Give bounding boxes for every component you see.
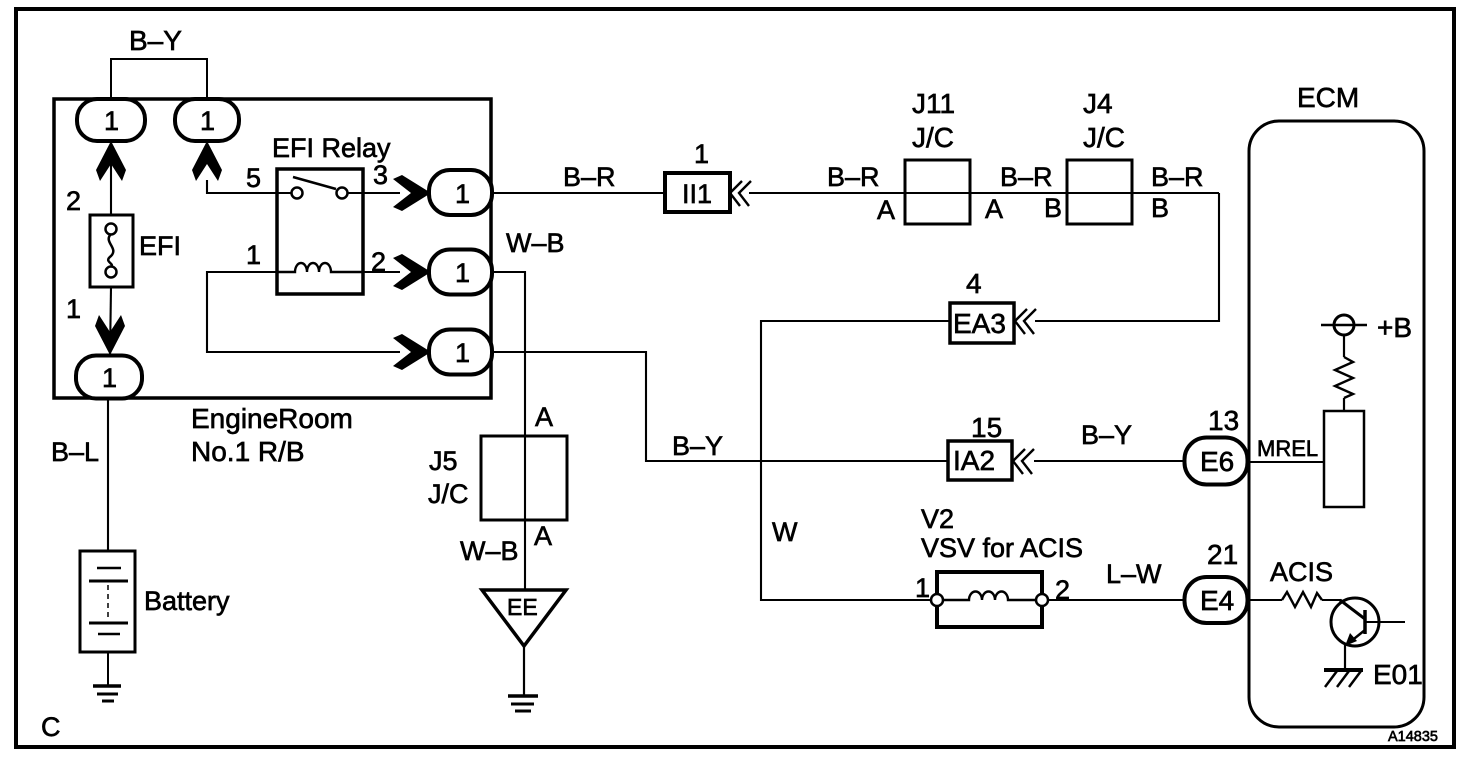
svg-text:E01: E01 bbox=[1373, 659, 1423, 690]
connector 1 (pin3 out) bbox=[429, 170, 492, 215]
svg-text:B–L: B–L bbox=[51, 437, 99, 467]
svg-text:1: 1 bbox=[915, 573, 930, 603]
connector IA2 pin 15 bbox=[948, 412, 1012, 480]
chevron marks at IA2 bbox=[1013, 449, 1034, 474]
connector E4 pin 21 ACIS bbox=[1185, 539, 1248, 623]
transistor Q (ACIS driver) bbox=[1331, 598, 1405, 670]
svg-text:No.1 R/B: No.1 R/B bbox=[191, 436, 305, 467]
arrow up into right connector bbox=[192, 141, 222, 181]
svg-text:J5: J5 bbox=[429, 446, 458, 476]
svg-text:B: B bbox=[1151, 193, 1169, 223]
ECM block bbox=[1249, 82, 1424, 727]
svg-text:1: 1 bbox=[104, 106, 119, 136]
svg-text:Battery: Battery bbox=[144, 586, 230, 616]
chevron marks at II1 bbox=[730, 181, 751, 206]
junction J11 J/C bbox=[905, 88, 970, 224]
svg-text:EFI: EFI bbox=[139, 231, 181, 261]
svg-text:ACIS: ACIS bbox=[1270, 557, 1333, 587]
connector E6 pin 13 MREL bbox=[1185, 405, 1248, 485]
arrow up into left connector bbox=[96, 141, 126, 181]
resistor (pull-up inside ECM) bbox=[1335, 335, 1353, 411]
svg-text:ECM: ECM bbox=[1297, 82, 1359, 113]
solenoid V2 VSV for ACIS bbox=[915, 504, 1083, 627]
svg-text:1: 1 bbox=[200, 106, 215, 136]
svg-text:B–Y: B–Y bbox=[129, 25, 182, 56]
svg-text:EngineRoom: EngineRoom bbox=[191, 403, 353, 434]
wire B-R J4 to EA3 bbox=[1035, 162, 1219, 321]
chevron marks at EA3 bbox=[1015, 309, 1036, 334]
wire B-L battery to relay block bbox=[51, 398, 108, 552]
relay block EngineRoom No.1 R/B bbox=[54, 99, 491, 467]
wire MREL E6 into ECM bbox=[1248, 436, 1324, 462]
svg-text:A: A bbox=[985, 194, 1003, 224]
wire fuse to top connector bbox=[110, 141, 112, 215]
svg-text:C: C bbox=[41, 712, 61, 742]
svg-text:B–Y: B–Y bbox=[1081, 420, 1132, 450]
svg-text:EA3: EA3 bbox=[953, 308, 1006, 339]
connector 1 (fuse top) bbox=[77, 99, 145, 141]
wire B-R pin3 connector to II1 bbox=[492, 162, 665, 193]
svg-text:5: 5 bbox=[246, 163, 261, 193]
wire B-Y third connector to IA2 bbox=[492, 352, 948, 461]
wire W EA3 to VSV bbox=[761, 321, 950, 600]
svg-text:1: 1 bbox=[455, 338, 470, 368]
svg-text:VSV for ACIS: VSV for ACIS bbox=[921, 533, 1083, 563]
connector 1 (B-Y out) bbox=[429, 330, 492, 375]
svg-text:J/C: J/C bbox=[428, 479, 469, 509]
svg-text:+B: +B bbox=[1377, 312, 1412, 343]
ground E01 bbox=[1324, 659, 1423, 690]
svg-text:IA2: IA2 bbox=[953, 445, 995, 476]
svg-text:4: 4 bbox=[966, 268, 982, 299]
svg-text:II1: II1 bbox=[682, 179, 712, 209]
svg-text:J4: J4 bbox=[1083, 88, 1113, 119]
svg-text:3: 3 bbox=[373, 160, 388, 190]
svg-text:E6: E6 bbox=[1200, 446, 1234, 477]
arrow right into third connector bbox=[393, 334, 431, 370]
svg-text:E4: E4 bbox=[1200, 585, 1234, 616]
connector EA3 pin 4 bbox=[950, 268, 1014, 343]
wire B-R J11 to J4 bbox=[1000, 162, 1053, 192]
connector 1 (pin2 out W-B) bbox=[429, 250, 492, 295]
connector II1 bbox=[665, 139, 730, 212]
svg-text:1: 1 bbox=[694, 139, 709, 169]
svg-text:A: A bbox=[877, 195, 895, 225]
wire B-R II1 to J11 bbox=[749, 162, 1219, 193]
svg-text:B–R: B–R bbox=[563, 162, 616, 192]
svg-text:J/C: J/C bbox=[1083, 122, 1125, 153]
wire battery to ground bbox=[107, 652, 109, 686]
svg-text:1: 1 bbox=[66, 294, 81, 324]
svg-text:J/C: J/C bbox=[912, 122, 954, 153]
connector 1 (battery feed) bbox=[76, 356, 142, 399]
wire W-B pin2 to J5 to EE bbox=[492, 228, 565, 590]
svg-text:B–R: B–R bbox=[1000, 162, 1053, 192]
svg-text:B–R: B–R bbox=[827, 162, 880, 192]
svg-text:1: 1 bbox=[246, 240, 261, 270]
resistor ACIS (base resistor) bbox=[1248, 557, 1341, 607]
wire L-W VSV to E4 bbox=[1048, 559, 1184, 600]
svg-text:1: 1 bbox=[102, 363, 117, 393]
wire relay pin1 loop bbox=[207, 272, 400, 352]
svg-text:B: B bbox=[1044, 193, 1062, 223]
svg-text:B–R: B–R bbox=[1151, 162, 1204, 192]
svg-text:A: A bbox=[535, 402, 553, 432]
svg-text:J11: J11 bbox=[912, 88, 955, 119]
connector 1 (relay pin 5 feed) bbox=[175, 99, 239, 141]
svg-text:1: 1 bbox=[455, 179, 470, 209]
wire relay pin3 to connector bbox=[363, 192, 400, 194]
svg-text:MREL: MREL bbox=[1257, 436, 1318, 461]
svg-text:2: 2 bbox=[66, 186, 81, 216]
arrow right into pin2 connector bbox=[393, 254, 431, 290]
power +B terminal bbox=[1321, 312, 1412, 343]
relay EFI Relay bbox=[272, 133, 391, 294]
junction J5 J/C bbox=[428, 436, 567, 520]
arrow down into bottom connector bbox=[95, 315, 125, 355]
svg-text:15: 15 bbox=[971, 412, 1002, 443]
svg-text:EFI Relay: EFI Relay bbox=[272, 133, 391, 163]
svg-text:A: A bbox=[534, 521, 552, 551]
svg-text:W: W bbox=[772, 517, 798, 547]
svg-text:EE: EE bbox=[507, 594, 538, 620]
battery bbox=[80, 551, 230, 652]
wire relay pin2 to connector bbox=[363, 271, 400, 273]
ground EE bbox=[482, 590, 566, 711]
svg-text:A14835: A14835 bbox=[1388, 729, 1438, 745]
svg-text:B–Y: B–Y bbox=[672, 431, 723, 461]
junction J4 J/C bbox=[1067, 88, 1132, 224]
fuse EFI bbox=[90, 215, 181, 287]
svg-text:W–B: W–B bbox=[460, 536, 519, 566]
svg-text:V2: V2 bbox=[921, 504, 954, 534]
svg-text:13: 13 bbox=[1208, 405, 1239, 436]
ground (battery) bbox=[93, 686, 121, 701]
svg-text:W–B: W–B bbox=[506, 228, 565, 258]
svg-text:L–W: L–W bbox=[1106, 559, 1162, 589]
relay coil block (MREL driver) bbox=[1324, 411, 1364, 507]
wire connector2 to relay pin5 bbox=[207, 180, 277, 193]
wire B-Y jumper loop bbox=[111, 25, 207, 99]
wire fuse to bottom connector bbox=[110, 287, 111, 356]
svg-text:1: 1 bbox=[455, 258, 470, 288]
arrow right into pin3 connector bbox=[393, 175, 431, 211]
svg-text:21: 21 bbox=[1207, 539, 1238, 570]
wire B-Y IA2 to E6 bbox=[1034, 420, 1185, 461]
